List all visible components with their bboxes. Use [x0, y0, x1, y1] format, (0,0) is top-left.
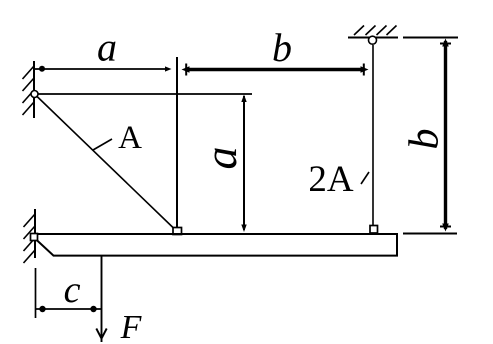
svg-text:A: A [118, 120, 142, 156]
dimension line b (top, thick) [182, 64, 369, 76]
svg-text:a: a [195, 147, 246, 170]
bottom tick for vertical b [403, 233, 457, 235]
horizontal reference line from anchor [35, 93, 253, 95]
dimension line c [36, 306, 102, 312]
dimension line b (vertical, thick) [440, 39, 451, 232]
svg-text:2A: 2A [308, 159, 354, 200]
dimension c extension line [35, 268, 37, 318]
svg-text:a: a [97, 25, 117, 70]
rod 2A (vertical) [372, 45, 374, 226]
extension line between a and b dims [176, 57, 178, 229]
dimension line a (top) [35, 66, 172, 72]
pin at wall anchor [31, 91, 38, 98]
square pin at rod 2A foot [370, 226, 378, 234]
beam [33, 234, 397, 256]
wall support top-left [23, 61, 35, 118]
force F arrow [96, 257, 106, 343]
ceiling support [348, 26, 398, 38]
wall support bottom-left [24, 209, 36, 263]
top extension line (right) [403, 37, 458, 39]
dimension line a (vertical) [241, 95, 246, 233]
rod A (diagonal) [35, 94, 175, 229]
pin at beam left end [31, 234, 38, 241]
svg-text:c: c [64, 269, 81, 311]
svg-text:b: b [272, 25, 292, 70]
svg-text:F: F [120, 309, 143, 344]
leader for A [93, 139, 112, 150]
leader for 2A [361, 172, 369, 184]
pin at ceiling [369, 36, 377, 44]
svg-text:b: b [402, 129, 448, 150]
square pin at rod A foot [173, 228, 182, 235]
